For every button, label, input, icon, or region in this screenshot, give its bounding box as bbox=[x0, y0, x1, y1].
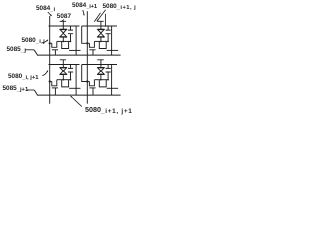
second channel U under node bbox=[99, 80, 106, 87]
liquid crystal element triangles bbox=[60, 68, 66, 71]
storage capacitor bbox=[106, 65, 111, 80]
counter electrode stub of liquid crystal element bbox=[60, 60, 66, 68]
signal line 5084_i bbox=[49, 16, 51, 104]
junction on signal line bbox=[49, 80, 51, 82]
second channel U under node bbox=[62, 80, 69, 87]
leader for 5084_i+1 bbox=[0, 0, 140, 120]
capacitor line (row 1, col 1) bbox=[49, 25, 80, 27]
liquid crystal element triangles bbox=[98, 30, 104, 33]
transistor gate electrode bbox=[52, 49, 58, 51]
capacitor line (row 1, col 2) with hook wire to signal line tap bbox=[82, 26, 117, 43]
storage capacitor bbox=[68, 26, 73, 41]
second channel U under node bbox=[99, 41, 106, 48]
second gate bar bbox=[69, 49, 80, 51]
transistor channel U bbox=[89, 41, 94, 47]
junction on signal line bbox=[86, 80, 88, 82]
liquid crystal element bottom plate and lead bbox=[60, 37, 67, 41]
capacitor-line drop wire bbox=[75, 65, 77, 96]
capacitor line (row 2, col 2) with hook wire to signal line tap bbox=[82, 65, 117, 82]
liquid crystal element top plate bbox=[97, 67, 104, 69]
leader for 5085_j+1 bbox=[0, 0, 140, 120]
liquid crystal element bottom plate and lead bbox=[97, 75, 104, 80]
liquid crystal element bottom plate and lead bbox=[60, 75, 67, 80]
liquid crystal element bottom plate and lead bbox=[97, 37, 104, 41]
second channel U under node bbox=[62, 41, 69, 48]
label 5080_i+1,j+1 bbox=[85, 106, 133, 115]
liquid crystal element top plate bbox=[60, 67, 67, 69]
storage capacitor bbox=[68, 65, 73, 80]
capacitor-line drop wire bbox=[111, 65, 113, 96]
transistor gate lead to scan line bbox=[92, 50, 94, 55]
transistor source tap wire bbox=[87, 42, 89, 44]
transistor channel U bbox=[52, 80, 57, 86]
label 5080_i,j+1 bbox=[8, 73, 39, 82]
leader for 5080_i+1,j bbox=[0, 0, 140, 120]
pixel node wire bbox=[57, 40, 71, 42]
second gate bar bbox=[107, 87, 118, 89]
transistor source tap wire bbox=[50, 81, 52, 83]
node junctions bbox=[100, 41, 102, 43]
leader for 5085_j bbox=[0, 0, 140, 120]
transistor gate electrode bbox=[89, 49, 95, 51]
liquid crystal element top plate bbox=[97, 28, 104, 30]
counter electrode stub of liquid crystal element bbox=[60, 21, 66, 29]
scan line 5085_j bbox=[34, 50, 121, 55]
leader for 5087 bbox=[0, 0, 140, 120]
capacitor-line drop wire bbox=[75, 26, 77, 55]
second gate bar bbox=[69, 87, 80, 89]
leader for 5080_i,j bbox=[0, 0, 140, 120]
storage capacitor bbox=[106, 26, 111, 41]
node junctions bbox=[63, 79, 65, 81]
scan line 5085_j+1 bbox=[34, 90, 120, 95]
label 5080_i,j bbox=[22, 37, 45, 46]
transistor source tap wire bbox=[87, 81, 89, 83]
junction on signal line bbox=[86, 42, 88, 44]
counter electrode stub of liquid crystal element bbox=[97, 60, 103, 68]
label 5085_j+1 bbox=[3, 85, 29, 94]
transistor gate lead to scan line bbox=[54, 50, 56, 55]
leader for 5084_i bbox=[0, 0, 140, 120]
liquid crystal element triangles bbox=[98, 68, 104, 71]
counter electrode stub of liquid crystal element bbox=[97, 21, 103, 29]
transistor source tap wire bbox=[50, 42, 52, 44]
capacitor line (row 2, col 1) bbox=[49, 64, 80, 66]
signal line 5084_i+1 bbox=[86, 11, 88, 104]
leader for 5080_i+1,j+1 bbox=[0, 0, 140, 120]
second gate bar bbox=[107, 49, 118, 51]
transistor gate electrode bbox=[89, 87, 95, 89]
label 5080_i+1,j bbox=[103, 3, 137, 12]
liquid crystal element top plate bbox=[60, 28, 67, 30]
capacitor-line drop wire bbox=[111, 26, 113, 55]
transistor gate lead to scan line bbox=[92, 88, 94, 95]
junction on signal line bbox=[49, 42, 51, 44]
node junctions bbox=[63, 41, 65, 43]
transistor gate lead to scan line bbox=[54, 88, 56, 95]
pixel node wire bbox=[57, 79, 71, 81]
label 5084_i+1 bbox=[72, 2, 97, 11]
transistor gate electrode bbox=[52, 87, 58, 89]
node junctions bbox=[100, 79, 102, 81]
label 5085_j bbox=[7, 46, 27, 55]
label 5084_i bbox=[36, 5, 55, 14]
leader for 5080_i,j+1 bbox=[0, 0, 140, 120]
label 5087 bbox=[57, 13, 71, 20]
transistor channel U bbox=[52, 41, 57, 47]
transistor channel U bbox=[89, 80, 94, 86]
liquid crystal element triangles bbox=[60, 30, 66, 33]
pixel node wire bbox=[94, 40, 108, 42]
pixel node wire bbox=[94, 79, 108, 81]
